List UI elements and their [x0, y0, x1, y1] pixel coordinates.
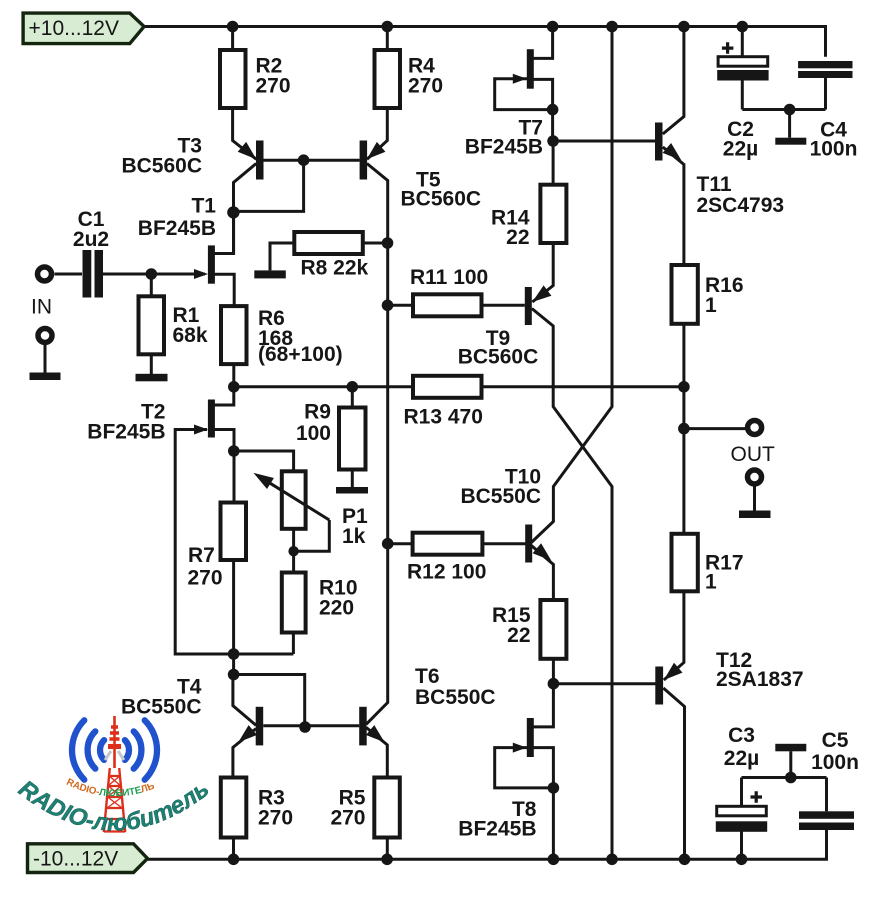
- svg-text:BC560C: BC560C: [401, 188, 482, 211]
- resistor R6: [221, 306, 247, 364]
- watermark logo radio waves left: [72, 720, 104, 779]
- wire T7 source to T11 base node: [551, 110, 554, 141]
- wire R9 top lead: [351, 387, 354, 408]
- transistor T9 base bar: [525, 287, 532, 325]
- ground (near C2/C4): [775, 138, 806, 145]
- resistor R7: [221, 503, 247, 561]
- svg-text:2SA1837: 2SA1837: [716, 668, 804, 691]
- wire T5 collector / middle rail: [366, 164, 387, 725]
- resistor R1: [139, 296, 165, 354]
- ground (at R9): [336, 487, 368, 494]
- svg-text:100n: 100n: [810, 138, 858, 161]
- wire P1 to R10: [292, 529, 295, 573]
- wire T6 emitter to R5: [366, 728, 387, 778]
- ground (input lower terminal): [30, 373, 61, 381]
- wire T11 collector: [663, 27, 684, 135]
- wire T9 collector crossing down: [532, 309, 612, 860]
- wire C2 top lead: [741, 27, 744, 57]
- svg-text:220: 220: [319, 597, 354, 620]
- JFET T7 gate arrow: [513, 74, 527, 84]
- wire T3 collector to node A: [234, 164, 257, 254]
- wire T8 gate loop: [495, 748, 554, 788]
- wire R8 left to ground: [270, 243, 294, 270]
- wire R3 bottom: [232, 838, 235, 860]
- svg-text:IN: IN: [31, 296, 52, 319]
- wire R17 to T12 emitter: [664, 591, 684, 680]
- svg-text:22µ: 22µ: [724, 747, 759, 770]
- wire ground stem near C3: [789, 751, 792, 777]
- potentiometer P1 body: [282, 471, 306, 529]
- watermark logo big curved text: [17, 790, 213, 831]
- wire T12 collector: [663, 688, 684, 859]
- capacitor C5: [799, 811, 854, 830]
- transistor T4 emitter arrow: [238, 725, 257, 742]
- wire P1 top link: [234, 451, 294, 471]
- svg-text:1: 1: [705, 294, 717, 317]
- svg-text:R8 22k: R8 22k: [301, 257, 369, 280]
- watermark logo radio waves right: [125, 720, 157, 779]
- resistor R17: [672, 534, 698, 592]
- svg-text:68k: 68k: [173, 324, 208, 347]
- svg-text:BC550C: BC550C: [460, 485, 541, 508]
- JFET T8 channel bar: [527, 718, 534, 757]
- wire R4/T5 emitter column: [367, 27, 387, 160]
- transistor T9 emitter arrow: [532, 285, 551, 302]
- wire T4 base to T6 base: [263, 724, 359, 727]
- svg-text:270: 270: [256, 75, 291, 98]
- wire T1 source to R6: [214, 274, 234, 306]
- svg-text:BF245B: BF245B: [458, 818, 536, 841]
- svg-text:BF245B: BF245B: [87, 421, 165, 444]
- wire T7 gate loop: [495, 79, 553, 110]
- watermark logo small arc text: [64, 782, 168, 796]
- wire T11 emitter to R16: [663, 147, 684, 265]
- resistor R15: [540, 600, 566, 659]
- svg-text:BF245B: BF245B: [138, 217, 216, 240]
- svg-text:270: 270: [188, 567, 223, 590]
- transistor T4 base bar: [256, 707, 264, 746]
- wire OUT stub: [684, 427, 745, 430]
- wire R5 bottom: [386, 838, 389, 860]
- wire C2-C4 bottom link: [742, 108, 825, 111]
- wire +V top rail: [144, 27, 826, 57]
- wire R13 right to output column: [482, 385, 684, 388]
- wire T12 base link: [553, 682, 655, 685]
- transistor T6 emitter arrow: [366, 725, 385, 742]
- resistor R13: [413, 376, 482, 398]
- wire -V bottom rail: [147, 830, 827, 859]
- wire R6 bottom to node: [232, 365, 235, 387]
- potentiometer P1 wiper diagonal: [263, 479, 329, 520]
- svg-text:1: 1: [705, 571, 717, 594]
- wire T4 base tie: [234, 675, 305, 726]
- wire T10 emitter to R15: [531, 546, 553, 601]
- wire C3 bottom lead: [740, 830, 743, 859]
- wire IN lower terminal stem: [44, 345, 47, 373]
- svg-text:T1: T1: [191, 194, 216, 217]
- svg-text:R13 470: R13 470: [404, 406, 483, 429]
- svg-text:BF245B: BF245B: [465, 136, 543, 159]
- JFET T8 gate arrow: [513, 743, 527, 753]
- svg-text:2u2: 2u2: [73, 228, 109, 251]
- wire R11 right to T9 base: [482, 304, 525, 307]
- wire T8 drain: [534, 684, 554, 727]
- wire T7 source: [534, 79, 553, 109]
- svg-text:BC550C: BC550C: [415, 686, 496, 709]
- terminal IN lower: [38, 329, 52, 343]
- wire C3 top lead: [740, 778, 743, 807]
- wire R8 right: [363, 242, 388, 245]
- wire T2 gate loop: [175, 430, 293, 655]
- resistor R8: [294, 232, 363, 254]
- svg-text:22: 22: [506, 226, 529, 249]
- terminal OUT lower: [748, 470, 762, 484]
- wire R16 bottom to R17 top: [682, 324, 685, 534]
- wire C5 top lead: [825, 778, 828, 812]
- JFET T2 channel bar: [208, 400, 215, 438]
- resistor R3: [221, 778, 247, 838]
- svg-text:22µ: 22µ: [723, 138, 758, 161]
- ground (input upper, at R1): [136, 374, 168, 382]
- JFET T1 channel bar: [208, 245, 215, 283]
- wire T8 source: [534, 748, 554, 788]
- ground (near C3/C5): [775, 744, 806, 752]
- svg-text:100n: 100n: [811, 751, 859, 774]
- svg-text:100: 100: [296, 422, 331, 445]
- wire R1 top lead: [150, 274, 153, 296]
- svg-text:270: 270: [258, 807, 293, 830]
- wire R12 right to T10 base: [482, 542, 525, 545]
- wire T2 drain: [214, 387, 234, 405]
- wire P1 wiper lower part: [294, 520, 330, 551]
- transistor T5 base bar: [360, 141, 368, 180]
- wire T7 drain: [534, 27, 553, 59]
- capacitor C2 (electrolytic, +): [717, 42, 768, 80]
- transistor T3 base bar: [256, 141, 264, 180]
- ground (at R8): [254, 270, 285, 278]
- resistor R14: [540, 185, 566, 243]
- svg-text:R12 100: R12 100: [407, 561, 486, 584]
- svg-text:T11: T11: [697, 173, 732, 196]
- transistor T11 base bar: [655, 123, 663, 161]
- transistor T5 emitter arrow: [367, 142, 386, 159]
- svg-text:T6: T6: [415, 665, 440, 688]
- transistor T12 emitter arrow: [664, 663, 683, 680]
- svg-text:(68+100): (68+100): [258, 343, 343, 366]
- svg-text:C3: C3: [728, 724, 755, 747]
- wire T4 emitter to R3: [233, 729, 256, 778]
- transistor T10 base bar: [525, 525, 532, 563]
- wire C4 bottom lead: [824, 77, 827, 110]
- wire C3-C5 top link: [742, 776, 827, 779]
- transistor T6 base bar: [359, 707, 367, 746]
- svg-text:BC560C: BC560C: [121, 155, 202, 178]
- svg-text:R11 100: R11 100: [410, 266, 488, 289]
- wire R15 bottom: [552, 659, 555, 684]
- transistor T11 emitter arrow: [663, 143, 682, 160]
- wire R1 bottom lead: [150, 355, 153, 374]
- transistor T10 emitter arrow: [533, 543, 552, 560]
- transistor T12 base bar: [655, 667, 663, 705]
- wire T4 collector: [233, 675, 256, 726]
- svg-text:R9: R9: [304, 401, 331, 424]
- wire T3 collector-base tie loop: [233, 160, 303, 211]
- svg-text:270: 270: [330, 807, 365, 830]
- wire R10 bottom to loop: [292, 633, 295, 655]
- svg-text:C5: C5: [822, 729, 849, 752]
- ground (output lower terminal): [739, 511, 771, 519]
- wire long rail from +V crossing to T10 collector: [531, 27, 612, 543]
- potentiometer P1 arrow: [254, 473, 274, 489]
- svg-text:-10...12V: -10...12V: [33, 848, 118, 871]
- watermark logo antenna tower: [104, 716, 125, 832]
- capacitor C4: [798, 61, 852, 78]
- wire T8 node to -V rail: [552, 788, 555, 859]
- svg-text:270: 270: [408, 75, 443, 98]
- wire R7 column: [232, 560, 235, 675]
- svg-text:22: 22: [507, 624, 530, 647]
- resistor R10: [282, 573, 306, 633]
- terminal IN upper: [38, 267, 52, 281]
- resistor R2: [220, 50, 246, 108]
- wire ground stem near C2: [788, 110, 791, 138]
- wire OUT lower terminal stem: [753, 486, 756, 511]
- svg-text:2SC4793: 2SC4793: [697, 194, 785, 217]
- svg-text:OUT: OUT: [731, 443, 776, 466]
- svg-text:BC550C: BC550C: [121, 696, 202, 719]
- resistor R12: [413, 533, 483, 555]
- terminal OUT upper: [748, 421, 762, 435]
- wire base link to T11: [553, 140, 655, 143]
- wire R2/T3 emitter column: [233, 27, 257, 160]
- resistor R9: [339, 408, 366, 470]
- wire R14 bottom to T9 emitter: [532, 243, 553, 302]
- resistor R16: [672, 265, 698, 324]
- node +10...12V supply flag: [23, 13, 144, 43]
- capacitor C3 (electrolytic, +): [716, 791, 767, 832]
- svg-text:R7: R7: [188, 544, 215, 567]
- svg-text:1k: 1k: [342, 525, 366, 548]
- wire C2 bottom lead: [741, 81, 744, 110]
- svg-text:BC560C: BC560C: [458, 346, 539, 369]
- wire feedback node row: [234, 385, 413, 388]
- wire IN to T1 gate: [55, 273, 206, 276]
- resistor R4: [375, 50, 401, 108]
- wire T3-T5 base link: [263, 159, 359, 162]
- wire T1 drain: [214, 212, 233, 253]
- wire node to R14: [552, 141, 555, 185]
- transistor T3 emitter arrow: [238, 142, 257, 159]
- wire R9 bottom lead: [351, 469, 354, 487]
- resistor R5: [374, 778, 400, 838]
- wire R12 left: [388, 542, 413, 545]
- JFET T1 gate arrow: [194, 269, 208, 279]
- wire T2 source down: [214, 430, 234, 503]
- JFET T7 channel bar: [527, 49, 534, 88]
- svg-text:+10...12V: +10...12V: [29, 17, 120, 40]
- JFET T2 gate arrow: [194, 425, 208, 435]
- wire R11 left: [388, 304, 413, 307]
- capacitor C1: [83, 250, 104, 298]
- node -10...12V supply flag: [28, 844, 148, 873]
- resistor R11: [413, 294, 482, 316]
